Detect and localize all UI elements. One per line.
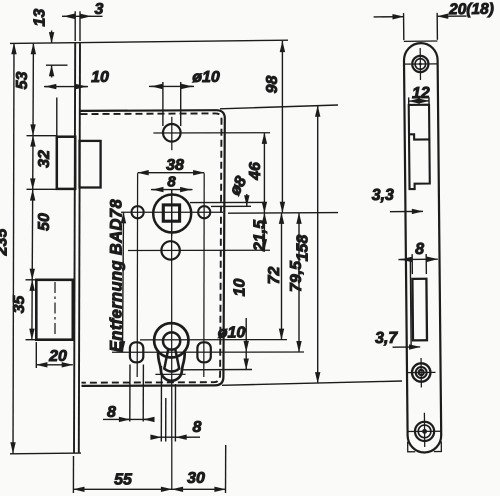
lock case outline [80, 110, 225, 386]
faceplate square end line top [404, 40, 438, 42]
dim 3 arrows [64, 15, 76, 17]
svg-text:8: 8 [107, 404, 116, 421]
dim 13 line with outside arrows [51, 31, 53, 44]
svg-text:10: 10 [91, 69, 109, 86]
oval row horizontal line [112, 351, 304, 353]
dim 46 [263, 133, 265, 213]
svg-text:8: 8 [193, 419, 202, 436]
right oval hole [197, 342, 210, 362]
dim 10 keyhole [245, 318, 247, 352]
right o8 hole [198, 206, 210, 218]
svg-text:98: 98 [264, 76, 281, 94]
svg-text:72: 72 [266, 267, 283, 285]
dim 3,3 [390, 210, 423, 212]
deadbolt centerline [54, 282, 56, 338]
deadbolt (protruding) [36, 280, 73, 340]
svg-text:ø10: ø10 [218, 325, 246, 342]
dim 3 extension lines above faceplate [74, 11, 76, 41]
holes row horizontal centerline [121, 211, 223, 213]
follower circle [153, 195, 191, 233]
faceplate square end marks bottom [408, 442, 416, 452]
tick line across keyhole stem [155, 373, 185, 375]
dim 8 keyhole offset [153, 436, 200, 438]
dim 12 [409, 100, 429, 102]
left hole column centerline [136, 173, 138, 377]
faceplate edge-on front line [74, 43, 75, 453]
dim 72 [281, 213, 283, 340]
latch bolt head (protruding) [57, 137, 75, 189]
svg-text:12: 12 [412, 85, 430, 102]
svg-text:30: 30 [187, 470, 205, 487]
right hole column centerline [203, 173, 205, 377]
dim 10 latch protrusion arrows [44, 86, 88, 88]
dim 30 [172, 488, 226, 490]
case top extension to 158 [220, 105, 338, 109]
svg-text:ø10: ø10 [192, 69, 220, 86]
top screw hole [412, 56, 428, 72]
keyhole inner flare [164, 349, 179, 371]
cylinder hole outer stem [158, 351, 185, 381]
svg-text:8: 8 [167, 174, 176, 191]
top hole o10 [163, 124, 181, 142]
faceplate outline rounded ends [404, 43, 442, 453]
dim 8 spindle square arrows [151, 189, 193, 191]
top hole horizontal centerline [153, 132, 270, 134]
case bottom extension to 158 and right view [222, 381, 402, 385]
svg-text:38: 38 [166, 157, 184, 174]
dim 235 overall [13, 43, 14, 453]
middle screw hole [412, 363, 431, 382]
svg-text:20(18): 20(18) [448, 1, 494, 18]
dim o10 top hole arrows [149, 85, 194, 87]
chain extension lines [27, 135, 57, 137]
svg-text:13: 13 [32, 9, 49, 27]
svg-text:53: 53 [14, 72, 31, 90]
latch bolt step seen through cutout [409, 134, 429, 139]
svg-text:46: 46 [247, 162, 264, 181]
dim 3 left arrow [62, 15, 103, 17]
svg-text:8: 8 [415, 241, 424, 258]
svg-text:50: 50 [36, 213, 53, 231]
main vertical centerline through cylinder down to dimension [171, 190, 173, 490]
top hole vertical centerline [171, 117, 173, 150]
svg-text:235: 235 [0, 228, 11, 257]
dim 20 deadbolt throw [36, 364, 73, 366]
chain dim 32 [32, 136, 34, 190]
dim 55 [73, 488, 172, 490]
chain dim 50 [31, 190, 34, 280]
svg-text:158: 158 [295, 235, 312, 262]
svg-text:3: 3 [95, 1, 104, 18]
svg-text:20: 20 [48, 348, 67, 365]
lock case inner dashed outline [81, 113, 222, 382]
lower hole horizontal centerline [128, 249, 270, 251]
dim 8 left oval [103, 418, 153, 420]
dim 38 [138, 172, 205, 174]
svg-text:32: 32 [36, 150, 53, 168]
cylinder hole outer circle [154, 323, 188, 357]
dim 79,5 [298, 213, 300, 352]
faceplate bottom end line [10, 452, 81, 455]
latch bolt body (inside case) [80, 141, 101, 188]
latch cutout [409, 105, 430, 189]
top extension line over faceplate [10, 40, 288, 43]
svg-text:79,5: 79,5 [288, 260, 305, 292]
dim 3,7 [393, 346, 421, 348]
dim 10 extension [56, 98, 58, 137]
faceplate edge-on back line [79, 43, 80, 453]
dim 20(18) [374, 16, 404, 18]
bottom screw hole [415, 422, 434, 441]
cylinder horizontal centerline [140, 339, 287, 341]
dim o10 extensions [162, 82, 164, 126]
lower hole o10 [161, 241, 179, 259]
left oval hole [130, 342, 143, 362]
svg-text:55: 55 [114, 472, 133, 489]
svg-text:21,5: 21,5 [252, 219, 269, 252]
deadbolt cutout [412, 279, 427, 341]
follower square spindle hole 8mm [163, 205, 179, 221]
dim 13 tick [46, 64, 68, 66]
svg-text:10: 10 [231, 279, 248, 297]
svg-text:3,3: 3,3 [372, 187, 395, 204]
keyhole inner circle [163, 332, 180, 349]
dim 55/30 extensions [72, 456, 74, 493]
svg-text:3,7: 3,7 [375, 330, 399, 347]
follower vertical centerline [171, 190, 173, 236]
dim 8 deadbolt cutout [398, 258, 435, 260]
left o8 hole [132, 206, 144, 218]
dim 158 [317, 106, 319, 384]
dim 21,5 [263, 213, 265, 250]
deadbolt cutout edge line [409, 258, 412, 347]
chain dim 53 [32, 43, 34, 135]
dim Entfernung BAD78 [123, 212, 124, 352]
row extension lines right of case [228, 212, 338, 215]
dim 98 [281, 41, 283, 213]
dim o8 leader [246, 194, 248, 206]
svg-text:Entfernung BAD78: Entfernung BAD78 [108, 199, 126, 352]
chain dim 35 [31, 280, 33, 340]
